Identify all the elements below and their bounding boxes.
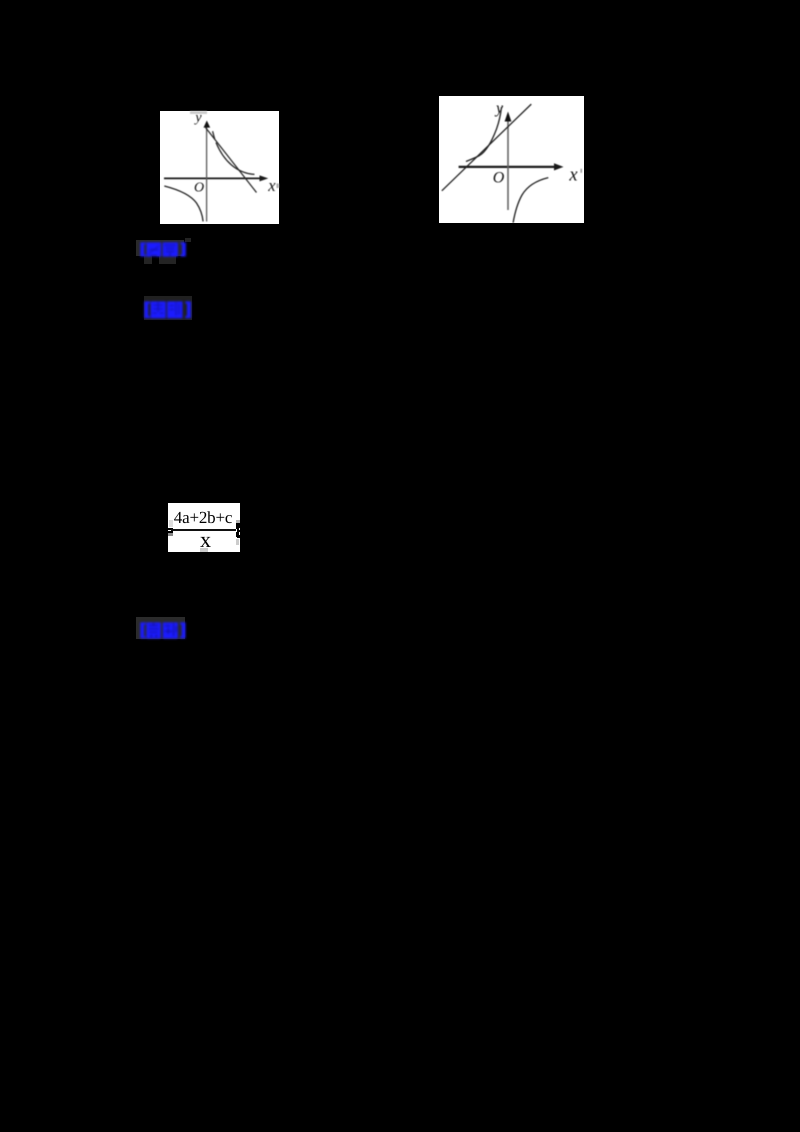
x-axis <box>459 165 558 167</box>
right edge gray tick <box>581 168 583 172</box>
fraction bar <box>171 529 238 531</box>
graph panel 1 <box>160 111 279 224</box>
svg-text:O: O <box>194 181 204 196</box>
right edge gray tick <box>277 184 280 189</box>
equals sign <box>165 528 173 530</box>
gray patches <box>169 520 173 527</box>
increasing line <box>442 104 532 191</box>
numerator 4a+2b+c <box>173 508 233 528</box>
x-axis <box>164 177 264 179</box>
exponential curve <box>466 107 502 162</box>
y-axis <box>206 125 208 222</box>
highlight behind label 1 <box>185 238 191 242</box>
top edge gray strip <box>190 111 207 114</box>
svg-text:x: x <box>267 176 276 195</box>
formula image box <box>168 503 240 552</box>
blue label 2 (analysis) <box>144 301 191 319</box>
hyperbola Q4 branch <box>513 177 548 222</box>
y-axis <box>507 118 509 210</box>
decreasing line <box>206 128 257 193</box>
svg-text:x: x <box>568 165 578 185</box>
svg-text:O: O <box>493 169 505 186</box>
right edge partial glyph <box>236 523 240 538</box>
denominator x <box>199 527 209 553</box>
blue label 1 (answer) <box>140 242 186 257</box>
svg-text:y: y <box>494 100 504 117</box>
graph panel 2 <box>439 96 584 224</box>
svg-text:y: y <box>193 111 202 125</box>
hyperbola Q1 branch <box>213 131 215 139</box>
highlight behind label 3 <box>136 617 185 640</box>
highlight behind label 2 <box>144 296 192 320</box>
blue label 3 (comment) <box>140 622 186 639</box>
hyperbola Q3 branch <box>164 186 203 221</box>
